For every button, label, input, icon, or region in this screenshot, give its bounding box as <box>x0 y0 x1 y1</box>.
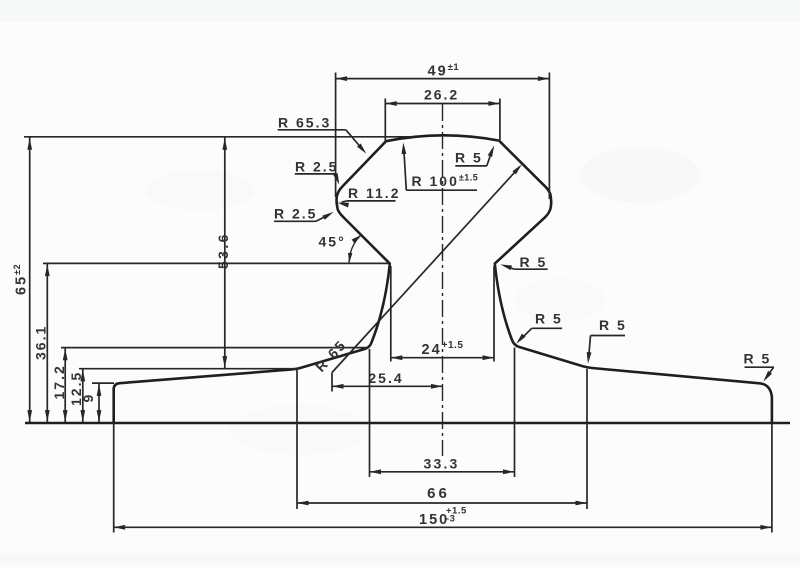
svg-text:17.2: 17.2 <box>51 364 67 399</box>
svg-text:R 11.2: R 11.2 <box>348 185 400 201</box>
svg-text:R 5: R 5 <box>535 310 563 326</box>
svg-text:45°: 45° <box>319 234 346 250</box>
svg-text:36.1: 36.1 <box>33 325 49 360</box>
svg-text:R 5: R 5 <box>520 254 548 270</box>
svg-text:26.2: 26.2 <box>424 86 459 102</box>
svg-text:9: 9 <box>80 393 96 403</box>
svg-text:-3: -3 <box>446 514 455 525</box>
svg-text:R 5: R 5 <box>599 317 627 333</box>
svg-text:33.3: 33.3 <box>423 455 459 471</box>
svg-text:150: 150 <box>419 512 449 528</box>
svg-text:66: 66 <box>427 485 450 502</box>
svg-text:R 5: R 5 <box>455 149 483 165</box>
svg-text:R 2.5: R 2.5 <box>274 205 317 221</box>
svg-text:R 2.5: R 2.5 <box>295 158 338 174</box>
svg-text:R 65.3: R 65.3 <box>278 114 331 130</box>
svg-text:25.4: 25.4 <box>368 370 403 386</box>
svg-text:R 5: R 5 <box>744 351 772 367</box>
